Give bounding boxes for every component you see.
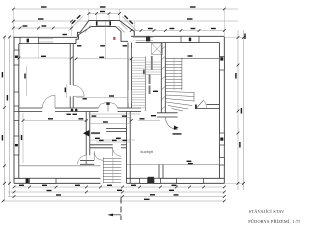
interior dim above double door xyxy=(76,97,128,99)
bottom dim row2 xyxy=(8,191,224,193)
bay right diagonal window xyxy=(121,23,128,29)
top-right wall outer line xyxy=(131,35,224,37)
wall V7 kitchen bottom partial xyxy=(158,165,160,179)
dim text top row3 b xyxy=(42,25,47,26)
bottom dim row1 ticks line xyxy=(14,186,224,188)
dim text top row1 right xyxy=(190,6,196,7)
window top-left thin section xyxy=(39,38,54,40)
dim text right section c xyxy=(191,28,196,29)
stair hatch on V6 wall xyxy=(162,47,165,110)
wall V2 vestibule left xyxy=(85,112,87,156)
bay inner outline xyxy=(76,26,128,43)
bottom dim texts row3 xyxy=(56,194,61,195)
right extension bottom xyxy=(224,182,243,184)
bay diagonal dim line right xyxy=(122,16,137,31)
left dim line outer xyxy=(4,36,6,201)
interior dim kitchen xyxy=(138,120,160,122)
dim text top row3 a xyxy=(23,25,28,26)
left dim text a xyxy=(2,72,3,78)
door D2 arc xyxy=(42,95,55,108)
bottom wall pier xyxy=(148,177,154,184)
stair center line xyxy=(173,58,175,91)
interior dim hall rows xyxy=(90,117,132,119)
right wall window 1 xyxy=(219,57,224,71)
right dim text c xyxy=(239,142,240,148)
wall V1 room divider upper xyxy=(69,44,71,85)
dim text 2298 top row1 mid xyxy=(100,6,106,7)
bay diagonal dim line left xyxy=(69,16,84,31)
bottom wall outer line xyxy=(14,182,101,184)
left wall outer line xyxy=(13,37,15,184)
door D8 arc lower-left room xyxy=(78,156,87,165)
basement stair right flight treads xyxy=(146,61,161,63)
right dim line inner xyxy=(237,30,239,190)
interior dim lower rooms horizontal xyxy=(23,120,88,122)
door label triangle 2 xyxy=(174,126,179,131)
interior dim lower room vertical xyxy=(22,113,24,163)
small texts below H1 left xyxy=(67,114,71,115)
top-right wall inner line xyxy=(136,42,220,44)
window top-left W1 niche xyxy=(20,37,39,43)
left wall window 3 xyxy=(14,112,19,121)
wall H3 small xyxy=(80,160,94,162)
right dim text a xyxy=(244,34,245,40)
right wall window 3 xyxy=(219,158,224,166)
window top-right niche xyxy=(181,36,199,42)
small dim text above wall xyxy=(63,34,67,35)
stair lower edge xyxy=(193,92,195,102)
bottom dim text row4 xyxy=(144,199,150,200)
stair winder treads xyxy=(165,92,194,93)
hall face thin line xyxy=(88,113,140,115)
door label text 2 xyxy=(173,133,182,135)
interior dim vestibule xyxy=(90,139,135,141)
double door D3 arcs xyxy=(99,103,109,108)
left dim text b xyxy=(2,135,3,141)
wall H1 middle horizontal xyxy=(19,107,42,109)
bottom wall window 2 xyxy=(140,178,148,183)
wall V6 stair left xyxy=(160,43,162,114)
left wall window 1 xyxy=(14,50,19,65)
dim text top row2 left xyxy=(38,18,44,19)
bottom wall window 3 xyxy=(154,178,160,183)
opening lines in V5 xyxy=(128,48,131,58)
left wall window 2 xyxy=(14,92,19,106)
wall H5 kitchen stub xyxy=(157,112,178,114)
dim text right section d xyxy=(211,28,216,29)
basement stair label rotated text xyxy=(149,74,151,84)
door label text 1 xyxy=(91,132,100,134)
bay diagonal dim text left xyxy=(71,20,75,24)
chimney flue xyxy=(152,43,163,55)
interior dim room2 horizontal xyxy=(76,58,131,60)
dim text bay top xyxy=(100,11,105,12)
bottom wall window 1 xyxy=(30,178,57,183)
wall V5 middle column lower / vestibule east xyxy=(126,112,128,184)
red section mark xyxy=(113,37,115,40)
interior dim narrow hall vertical xyxy=(143,70,144,75)
extension line top-left corner xyxy=(12,9,14,37)
left wall window 4 xyxy=(14,136,19,155)
dim text right section b xyxy=(170,28,175,29)
dim line top row3 left xyxy=(13,27,71,29)
basement stair left flight treads xyxy=(132,57,145,59)
left dim line inner xyxy=(9,36,11,196)
door D5 kitchen arc xyxy=(165,117,177,129)
stair treads upper flight xyxy=(165,58,219,60)
right dim line outer xyxy=(243,30,245,190)
extension lines bay xyxy=(88,9,90,21)
bottom dim row4 overall xyxy=(3,200,224,202)
left wall inner line xyxy=(18,44,20,179)
bottom dim texts row1 xyxy=(19,185,24,186)
basement stair divider xyxy=(144,57,146,112)
door D1 arc xyxy=(73,85,84,96)
bay center line xyxy=(105,21,107,59)
left dim text c xyxy=(7,95,8,101)
window W1 tick xyxy=(27,39,29,43)
inner face line bottom rooms xyxy=(19,165,101,167)
stair edge line xyxy=(181,58,183,91)
right wall outer line xyxy=(223,37,225,183)
interior dim room1 horizontal xyxy=(19,57,72,59)
right extension top xyxy=(224,37,243,39)
dim text 1180 top row1 left xyxy=(41,6,47,7)
right wall window 2 xyxy=(219,133,224,145)
landing dim text xyxy=(188,55,193,56)
kitchen window dim texts xyxy=(187,161,192,162)
right dim text b xyxy=(235,73,236,79)
door width dim next to D1 xyxy=(66,84,68,98)
window top-right tick xyxy=(189,38,191,42)
vestibule dim row xyxy=(96,141,130,143)
right dim text d xyxy=(241,108,242,114)
small dim texts below bay inner wall xyxy=(77,45,81,46)
door label triangle 1 xyxy=(83,130,89,137)
door D7 arc hall-vestibule xyxy=(113,148,121,156)
bay diagonal dim text right xyxy=(124,15,128,19)
section arrow xyxy=(109,214,121,216)
wall H2 hall lower xyxy=(106,128,126,130)
dim line bay top xyxy=(89,13,120,15)
wall H4 stair bottom xyxy=(207,104,220,106)
bay top window xyxy=(97,21,111,23)
bottom dim texts row2 xyxy=(47,190,52,191)
door D4 stair leaf and arc xyxy=(197,100,204,108)
right wall inner line xyxy=(218,43,220,179)
tick marks dimension xyxy=(2,8,245,203)
wall V5 middle column upper xyxy=(127,43,129,109)
section cut dashed line xyxy=(120,198,122,221)
dim line top row1 overall xyxy=(13,8,238,10)
dim text right section a xyxy=(148,28,153,29)
top-left wall outer line xyxy=(13,36,77,38)
dim text top row2 right xyxy=(187,18,193,19)
wall H6 vestibule north xyxy=(90,144,113,146)
bottom dim row3 xyxy=(8,196,224,198)
dim line top row right section xyxy=(131,30,224,32)
interior dim room1 vertical xyxy=(26,66,28,96)
svg-text:kuchyň: kuchyň xyxy=(141,149,154,154)
top-left wall inner line xyxy=(19,43,76,45)
bay left diagonal window xyxy=(82,23,88,30)
dim line top row2 xyxy=(13,20,88,22)
bottom wall inner band line xyxy=(14,177,101,179)
extension line top-right corner xyxy=(223,9,225,37)
junction dots V1/H1 xyxy=(71,109,74,112)
bay outer outline xyxy=(77,21,134,38)
door D6 arc vestibule xyxy=(94,151,103,160)
svg-text:STÁVAJÍCÍ STAV: STÁVAJÍCÍ STAV xyxy=(249,209,285,214)
french door top-right section xyxy=(133,37,153,39)
bottom wall window 4 xyxy=(176,178,203,183)
